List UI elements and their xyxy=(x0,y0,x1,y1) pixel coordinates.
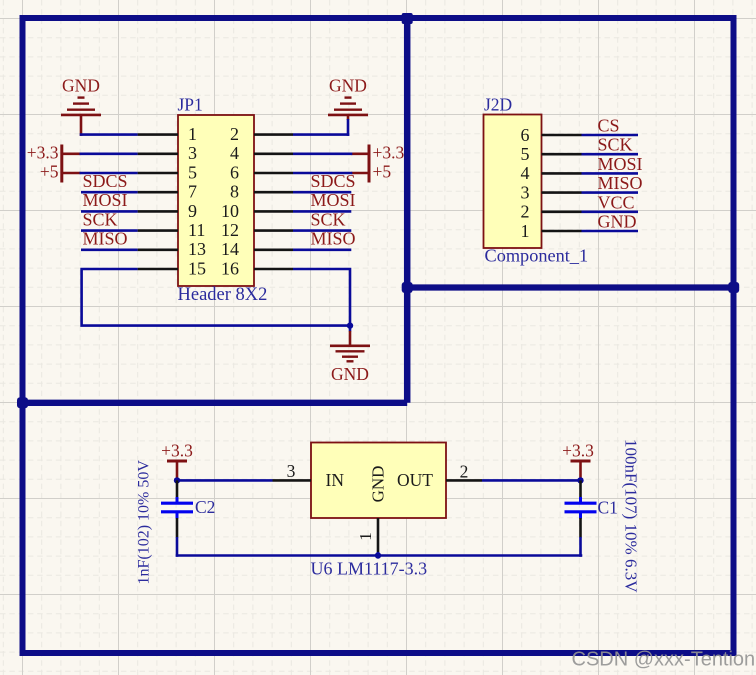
pin 11 of JP1 xyxy=(138,220,206,240)
pin 14 of JP1 xyxy=(221,239,293,259)
wire net SDCS (right) xyxy=(293,191,351,194)
net label CS (J2D) xyxy=(598,116,620,136)
svg-text:MOSI: MOSI xyxy=(83,190,128,210)
value label 100nF(107) 10% 6.3V (rotated) xyxy=(622,439,641,593)
wire net MOSI (right) xyxy=(293,210,351,213)
line: vertical divider xyxy=(404,18,411,403)
svg-text:1: 1 xyxy=(188,124,197,144)
svg-text:C2: C2 xyxy=(195,497,215,517)
regulator U6 body xyxy=(311,443,446,519)
svg-text:Header 8X2: Header 8X2 xyxy=(178,285,268,305)
vertex dot center xyxy=(402,282,413,293)
net label SDCS (left) xyxy=(83,171,128,191)
comment Header 8X2 xyxy=(178,285,268,305)
svg-text:12: 12 xyxy=(221,220,239,240)
pin 1 of U6 xyxy=(356,518,378,553)
net label GND (J2D) xyxy=(598,212,637,232)
svg-text:+3.3: +3.3 xyxy=(161,441,193,461)
power port +3.3 (left, above C2) xyxy=(161,441,193,480)
pin 2 of JP1 xyxy=(230,124,293,144)
svg-text:7: 7 xyxy=(188,182,197,202)
svg-text:MOSI: MOSI xyxy=(598,154,643,174)
watermark xyxy=(572,649,756,671)
svg-text:SCK: SCK xyxy=(598,135,633,155)
wire C2 to ground rail xyxy=(176,537,179,557)
power port +3.3 (right, above C1) xyxy=(562,441,594,480)
pin 3 of J2D xyxy=(521,182,582,202)
svg-text:5: 5 xyxy=(188,162,197,182)
net label SCK (left) xyxy=(83,209,118,229)
pin 3 of JP1 xyxy=(138,143,197,163)
designator JP1 xyxy=(178,95,203,115)
svg-text:16: 16 xyxy=(221,258,239,278)
pin 12 of JP1 xyxy=(221,220,293,240)
pin 13 of JP1 xyxy=(138,239,206,259)
svg-text:GND: GND xyxy=(331,364,369,384)
svg-text:OUT: OUT xyxy=(397,470,433,490)
wire net SCK (left) xyxy=(81,229,138,232)
designator J2D xyxy=(484,95,512,115)
designator C2 xyxy=(195,497,215,517)
pin name GND (rotated) xyxy=(369,466,388,503)
svg-text:MISO: MISO xyxy=(598,173,643,193)
svg-text:J2D: J2D xyxy=(484,95,512,115)
connector J2D body xyxy=(484,115,542,249)
wire +3.3 node to pin3 xyxy=(177,479,273,482)
svg-text:MISO: MISO xyxy=(311,229,356,249)
svg-text:JP1: JP1 xyxy=(178,95,203,115)
svg-text:2: 2 xyxy=(521,202,530,222)
wire net CS (J2D) xyxy=(582,134,639,137)
svg-text:8: 8 xyxy=(230,182,239,202)
pin name OUT xyxy=(397,470,433,490)
capacitor C2 xyxy=(161,480,193,537)
svg-text:C1: C1 xyxy=(598,498,618,518)
svg-text:GND: GND xyxy=(329,76,367,96)
svg-text:Component_1: Component_1 xyxy=(485,246,589,266)
svg-text:MOSI: MOSI xyxy=(311,190,356,210)
svg-text:6: 6 xyxy=(521,125,530,145)
pin 5 of J2D xyxy=(521,144,582,164)
pin 10 of JP1 xyxy=(221,201,293,221)
svg-text:3: 3 xyxy=(521,182,530,202)
pin 15 of JP1 xyxy=(138,258,206,278)
wire ground rail xyxy=(176,554,583,557)
svg-text:100nF(107) 10% 6.3V: 100nF(107) 10% 6.3V xyxy=(622,439,641,593)
svg-text:SCK: SCK xyxy=(83,209,118,229)
svg-text:9: 9 xyxy=(188,201,197,221)
svg-text:U6 LM1117-3.3: U6 LM1117-3.3 xyxy=(311,559,428,579)
vertex dot right xyxy=(728,282,739,293)
wire pin15 down-around xyxy=(82,269,350,326)
svg-text:GND: GND xyxy=(62,76,100,96)
pin 1 of JP1 xyxy=(138,124,197,144)
svg-text:VCC: VCC xyxy=(598,192,635,212)
net label SCK (right) xyxy=(311,209,346,229)
net label MOSI (left) xyxy=(83,190,128,210)
wire net GND (J2D) xyxy=(582,230,639,233)
wire pin1 to rail xyxy=(377,552,380,556)
svg-text:1: 1 xyxy=(521,221,530,241)
power port +3.3 / +5 (left) xyxy=(27,143,81,183)
designator C1 xyxy=(598,498,618,518)
wire pin1 to GND xyxy=(80,133,138,136)
pin 9 of JP1 xyxy=(138,201,197,221)
net label MISO (J2D) xyxy=(598,173,643,193)
svg-text:10: 10 xyxy=(221,201,239,221)
net label VCC (J2D) xyxy=(598,192,635,212)
wire net MOSI (J2D) xyxy=(582,172,639,175)
svg-text:SDCS: SDCS xyxy=(83,171,128,191)
wire +5 to pin5 xyxy=(80,172,138,175)
svg-text:IN: IN xyxy=(326,470,345,490)
net label SDCS (right) xyxy=(311,171,356,191)
junction dot at pin1 xyxy=(375,552,381,558)
wire net VCC (J2D) xyxy=(582,211,639,214)
svg-text:1: 1 xyxy=(356,532,375,541)
svg-text:6: 6 xyxy=(230,162,239,182)
svg-text:MISO: MISO xyxy=(83,229,128,249)
svg-text:+3.3: +3.3 xyxy=(27,143,59,163)
svg-text:CS: CS xyxy=(598,116,620,136)
power port GND (top left) xyxy=(61,76,101,136)
wire pin2 to GND xyxy=(293,119,349,136)
svg-text:3: 3 xyxy=(287,461,296,481)
svg-text:+5: +5 xyxy=(373,162,392,182)
vertex dot left xyxy=(17,397,28,408)
pin 16 of JP1 xyxy=(221,258,293,278)
pin name IN xyxy=(326,470,345,490)
svg-text:14: 14 xyxy=(221,239,239,259)
wire net MISO (right) xyxy=(293,249,351,252)
line: horizontal divider right xyxy=(407,284,733,290)
net label SCK (J2D) xyxy=(598,135,633,155)
svg-text:2: 2 xyxy=(460,462,469,482)
wire pin6 to +5 xyxy=(293,172,352,175)
svg-text:11: 11 xyxy=(188,220,205,240)
svg-text:1nF(102) 10% 50V: 1nF(102) 10% 50V xyxy=(136,460,153,585)
wire +3.3 to pin3 xyxy=(80,153,138,156)
svg-text:+5: +5 xyxy=(40,162,59,182)
pin 6 of J2D xyxy=(521,125,582,145)
svg-text:GND: GND xyxy=(369,466,388,503)
value label 1nF(102) 10% 50V (rotated) xyxy=(136,460,153,585)
pin 1 of J2D xyxy=(521,221,582,241)
wire pin16 down xyxy=(293,269,350,326)
svg-text:5: 5 xyxy=(521,144,530,164)
power port GND (bottom, flipped) xyxy=(330,326,370,384)
wire net SCK (right) xyxy=(293,229,351,232)
line: horizontal divider left xyxy=(23,400,408,406)
wire C1 to ground rail xyxy=(579,537,582,557)
svg-text:2: 2 xyxy=(230,124,239,144)
comment Component_1 xyxy=(485,246,589,266)
pin 4 of J2D xyxy=(521,163,582,183)
net label MISO (left) xyxy=(83,229,128,249)
junction dot xyxy=(347,322,353,328)
pin 2 of J2D xyxy=(521,202,582,222)
vertex dot top xyxy=(402,13,413,24)
wire net SCK (J2D) xyxy=(582,153,639,156)
pin 4 of JP1 xyxy=(230,143,293,163)
connector JP1 body xyxy=(178,115,254,286)
wire net MISO (left) xyxy=(81,249,138,252)
net label MISO (right) xyxy=(311,229,356,249)
net label MOSI (J2D) xyxy=(598,154,643,174)
svg-text:+3.3: +3.3 xyxy=(562,441,594,461)
wire pin2 to C1 node xyxy=(482,479,581,482)
pin 8 of JP1 xyxy=(230,182,293,202)
capacitor C1 xyxy=(565,480,597,537)
wire net MOSI (left) xyxy=(81,210,138,213)
wire pin4 to +3.3 xyxy=(293,153,352,156)
svg-text:SDCS: SDCS xyxy=(311,171,356,191)
svg-text:3: 3 xyxy=(188,143,197,163)
junction dot at C2 xyxy=(174,477,180,483)
pin 3 of U6 xyxy=(273,461,312,481)
svg-text:13: 13 xyxy=(188,239,206,259)
svg-text:+3.3: +3.3 xyxy=(373,143,405,163)
svg-text:GND: GND xyxy=(598,212,637,232)
pin 7 of JP1 xyxy=(138,182,197,202)
power port +3.3 / +5 (right) xyxy=(351,143,404,183)
svg-text:4: 4 xyxy=(521,163,530,183)
pin 2 of U6 xyxy=(446,462,482,482)
designator/comment U6 LM1117-3.3 xyxy=(311,559,428,579)
svg-text:4: 4 xyxy=(230,143,239,163)
net label MOSI (right) xyxy=(311,190,356,210)
wire net MISO (J2D) xyxy=(582,191,639,194)
wire net SDCS (left) xyxy=(81,191,138,194)
svg-text:SCK: SCK xyxy=(311,209,346,229)
svg-text:15: 15 xyxy=(188,258,206,278)
pin 5 of JP1 xyxy=(138,162,197,182)
svg-text:CSDN @xxx-Tention: CSDN @xxx-Tention xyxy=(572,649,756,671)
power port GND (top right) xyxy=(328,76,368,121)
junction dot at C1 xyxy=(577,477,583,483)
pin 6 of JP1 xyxy=(230,162,293,182)
